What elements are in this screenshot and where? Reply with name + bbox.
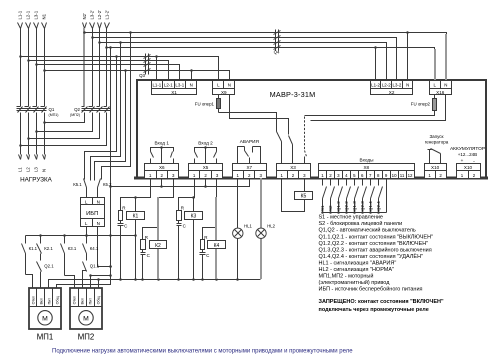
svg-text:Вход 1: Вход 1 <box>154 141 169 146</box>
connector X7 АВАРИЯ <box>233 164 267 171</box>
svg-text:N2': N2' <box>82 13 87 19</box>
svg-text:генератора: генератора <box>425 140 449 145</box>
node input L1-2 arrow <box>105 23 107 29</box>
svg-text:Откл: Откл <box>31 296 35 304</box>
svg-text:X1: X1 <box>171 90 177 95</box>
wire X8 pin9 common <box>386 179 388 213</box>
wire FU2 output to X3 pin3 dashed branch <box>307 112 435 116</box>
svg-text:12: 12 <box>408 173 413 178</box>
UPS box ИБП <box>81 198 105 205</box>
svg-text:L3-2': L3-2' <box>90 10 95 20</box>
svg-text:L: L <box>85 199 88 204</box>
svg-text:МП2: МП2 <box>78 333 94 342</box>
resistor R / capacitor C snubber of K4 <box>203 228 217 240</box>
lamp HL2 with wire from X7 pin3 <box>260 178 262 228</box>
svg-text:L1-1: L1-1 <box>18 10 23 19</box>
svg-text:L3-1: L3-1 <box>175 82 184 87</box>
svg-text:X16: X16 <box>436 90 445 95</box>
wire bus A drop to МП feeders <box>57 187 111 289</box>
node input N2 arrow <box>83 23 85 29</box>
svg-text:Q4: Q4 <box>274 50 280 55</box>
wire L2-2 feeder to X2 <box>100 43 387 81</box>
wire L3-2 vertical drop <box>92 29 94 107</box>
wire load column L1-1 <box>20 113 22 155</box>
terminal strip X1 <box>152 81 197 89</box>
svg-text:N: N <box>444 82 447 87</box>
svg-text:L1-1: L1-1 <box>152 82 161 87</box>
svg-text:S2 - блокировка лицевой панели: S2 - блокировка лицевой панели <box>319 220 403 227</box>
wire L3-2 feeder to X2 <box>93 38 397 81</box>
svg-text:X7: X7 <box>246 165 252 170</box>
svg-text:X3: X3 <box>290 165 296 170</box>
relay coil K2 <box>157 197 159 241</box>
svg-text:К1.1: К1.1 <box>29 246 38 251</box>
svg-text:К3: К3 <box>191 214 197 220</box>
breaker Q4 <box>274 31 281 35</box>
svg-text:(МП1): (МП1) <box>49 113 59 117</box>
svg-text:L1-2': L1-2' <box>105 10 110 20</box>
svg-text:АВАРИЯ: АВАРИЯ <box>240 139 259 144</box>
svg-text:Q1.2,Q2.2 - контакт состояния: Q1.2,Q2.2 - контакт состояния "ВКЛЮЧЕН" <box>319 241 429 247</box>
svg-text:Q1,Q2 - автоматический выключа: Q1,Q2 - автоматический выключатель <box>319 227 416 234</box>
svg-text:Подключение нагрузки автоматич: Подключение нагрузки автоматическими вык… <box>52 349 353 355</box>
connector X3 <box>277 164 311 171</box>
wire tap L2-2 feeder to УПС stub <box>119 41 122 44</box>
svg-text:Q2: Q2 <box>74 107 80 112</box>
svg-text:Q1.4: Q1.4 <box>368 201 373 211</box>
wire L1-1 feeder to X1 and X9 <box>21 57 219 81</box>
svg-text:N: N <box>42 169 47 172</box>
relay coil K3 <box>193 198 195 212</box>
svg-text:HL2: HL2 <box>267 223 275 228</box>
wire X16 L riser <box>434 49 436 80</box>
wire N2 feeder to X2 and X16 <box>85 33 447 81</box>
svg-text:X5: X5 <box>203 165 209 170</box>
svg-text:N1: N1 <box>42 13 47 19</box>
device box МАВР-3-31М outline <box>137 80 486 179</box>
wire L2-1 feeder to X1 <box>29 61 169 81</box>
wire tap L1-1 feeder to contact K5.1 <box>115 55 118 58</box>
svg-text:FU опер1: FU опер1 <box>195 102 215 107</box>
wire L1-2 vertical drop <box>106 29 108 107</box>
svg-text:К5.1: К5.1 <box>73 182 82 187</box>
svg-text:К1: К1 <box>133 214 139 220</box>
node load output L2 arrow <box>27 155 29 160</box>
connector X6 Вход 1 <box>145 164 179 171</box>
terminal strip X16 <box>430 81 452 89</box>
breaker Q3 <box>144 55 151 59</box>
contact K4.1 and contact Q1.1 to МП2 Вкл <box>86 236 88 243</box>
svg-text:подключать через промежуточные: подключать через промежуточные реле <box>319 307 429 313</box>
wire L1-1 vertical drop <box>20 29 22 107</box>
wire X5 pin2 to bus A <box>205 179 207 187</box>
svg-text:Q1.3,Q2.3 - контакт аварийного: Q1.3,Q2.3 - контакт аварийного выключени… <box>319 246 432 253</box>
switch group S1..Q2.4 below X8 <box>322 179 324 186</box>
wire jumper X6 pin3 to K2 group <box>159 179 174 198</box>
svg-text:Запуск: Запуск <box>429 134 443 139</box>
svg-text:L3-1: L3-1 <box>34 10 39 19</box>
svg-text:Q2.1: Q2.1 <box>44 263 54 268</box>
terminal strip X9 <box>213 81 235 89</box>
wire L2-2 vertical drop <box>99 29 101 107</box>
svg-text:К2: К2 <box>155 243 161 249</box>
svg-text:11: 11 <box>400 173 405 178</box>
svg-text:Общ: Общ <box>55 296 59 304</box>
svg-text:Q1.4,Q2.4 - контакт состояния: Q1.4,Q2.4 - контакт состояния "УДАЛЁН" <box>319 253 424 260</box>
svg-text:L1: L1 <box>18 167 23 172</box>
wire tap N2 feeder to contact K5.2 <box>129 31 132 34</box>
relay coil K5 <box>304 179 306 192</box>
svg-text:L2-2': L2-2' <box>97 10 102 20</box>
svg-text:Q1.3: Q1.3 <box>352 201 357 211</box>
wire switch common bus <box>323 212 387 214</box>
node input L2-2 arrow <box>98 23 100 29</box>
wire X6 pin2 to bus A <box>161 179 163 187</box>
wire МП2 Пит branch <box>91 275 111 277</box>
svg-text:X8: X8 <box>363 165 369 170</box>
motor drive МП1 <box>29 288 61 329</box>
svg-text:X6: X6 <box>159 165 165 170</box>
wire load column L3-1 <box>36 113 38 155</box>
wire ИБП N output <box>98 227 111 267</box>
wire N1 feeder to X1 and X9 <box>45 71 230 81</box>
wire L3-1 feeder to X1 <box>37 65 180 81</box>
svg-text:S1 - местное управление: S1 - местное управление <box>319 215 384 221</box>
breaker Q1 (MP1 drive) <box>17 106 21 108</box>
svg-text:S1: S1 <box>320 205 325 211</box>
svg-text:N: N <box>406 82 409 87</box>
svg-text:Входы: Входы <box>360 157 375 162</box>
svg-text:X2: X2 <box>389 90 395 95</box>
svg-text:К3.1: К3.1 <box>68 246 77 251</box>
relay coil K1 <box>135 198 137 212</box>
svg-text:Общ: Общ <box>96 296 100 304</box>
svg-text:Q1.2: Q1.2 <box>336 201 341 211</box>
connector X8 Входы <box>319 164 415 171</box>
svg-text:Вкл: Вкл <box>80 298 84 304</box>
wire bus A from УПС feed to X7 pin2 <box>111 179 250 187</box>
svg-text:НАГРУЗКА: НАГРУЗКА <box>20 177 53 184</box>
wire jumper X6 pin1 to K1 group <box>121 179 151 211</box>
svg-text:N: N <box>228 82 231 87</box>
lamp HL1 with wire from X7 pin1 <box>237 179 239 229</box>
svg-text:L2-2: L2-2 <box>382 82 391 87</box>
wire X16 N riser <box>445 34 447 80</box>
svg-text:Q1: Q1 <box>49 107 55 112</box>
svg-text:ИБП: ИБП <box>86 211 98 217</box>
svg-text:L3: L3 <box>34 167 39 172</box>
wire ИБП L output to relay bus <box>86 227 88 236</box>
svg-text:HL1: HL1 <box>244 223 252 228</box>
svg-text:Откл: Откл <box>72 296 76 304</box>
wire common return bus <box>49 280 261 289</box>
svg-text:ЗАПРЕЩЕНО: контакт состояния ": ЗАПРЕЩЕНО: контакт состояния "ВКЛЮЧЕН" <box>319 299 444 305</box>
terminal strip X2 <box>371 81 413 89</box>
wire МП2 Общ riser <box>98 280 100 289</box>
svg-text:FU опер2: FU опер2 <box>411 101 431 106</box>
wire FU1 output to X3 pin1 contact <box>219 113 277 132</box>
wire merge Q2 pole L2-2 to L2-1 column <box>29 113 100 139</box>
svg-text:Пит: Пит <box>88 298 92 305</box>
svg-text:М: М <box>83 315 89 322</box>
contact K2.1 and contact Q2.1 to МП1 Вкл <box>40 236 42 243</box>
node load output L3 arrow <box>35 155 37 160</box>
svg-text:К5: К5 <box>301 194 307 200</box>
wire merge Q2 pole L3-2 to L3-1 column <box>37 113 93 132</box>
wire tap L1-2 feeder down to bus A <box>109 46 112 49</box>
node load output N arrow <box>43 155 45 160</box>
svg-text:N: N <box>97 221 100 226</box>
svg-text:+12...24В: +12...24В <box>458 152 477 157</box>
svg-text:X9: X9 <box>221 90 227 95</box>
motor drive МП2 <box>70 288 102 329</box>
svg-text:МАВР-3-31М: МАВР-3-31М <box>270 90 316 99</box>
svg-text:МП1: МП1 <box>37 333 53 342</box>
fuse FU опер2 <box>434 95 436 99</box>
svg-text:10: 10 <box>392 173 397 178</box>
wire merge Q2 pole L1-2 to L1-1 column <box>21 113 107 146</box>
wire L2-1 vertical drop <box>28 29 30 107</box>
resistor R / capacitor C snubber of K2 <box>143 228 159 240</box>
contact K3.1 with wire to МП2 Откл <box>64 236 66 243</box>
svg-text:К4: К4 <box>214 243 220 249</box>
svg-text:(МП2): (МП2) <box>70 113 80 117</box>
node input L3-1 arrow <box>34 23 37 29</box>
svg-text:HL2 - сигнализация "НОРМА": HL2 - сигнализация "НОРМА" <box>319 267 395 273</box>
connector X10 аккумулятор <box>457 164 481 171</box>
wire X16-N stub <box>311 95 446 121</box>
svg-text:L2-1: L2-1 <box>26 10 31 19</box>
svg-text:+: + <box>461 158 464 163</box>
wire merge Q2 pole N2 to N1 column <box>45 113 85 123</box>
wire L3-1 vertical drop <box>36 29 38 107</box>
node input L1-1 arrow <box>18 23 21 29</box>
svg-text:Q1.1,Q2.1 - контакт состояния: Q1.1,Q2.1 - контакт состояния "ВЫКЛЮЧЕН" <box>319 234 434 240</box>
breaker Q2 (MP2 drive) <box>82 106 85 108</box>
wire load column L2-1 <box>28 113 30 155</box>
svg-text:Пит: Пит <box>47 298 51 305</box>
svg-text:Вкл: Вкл <box>39 298 43 304</box>
wire N2 vertical drop <box>83 28 85 106</box>
svg-text:-: - <box>473 158 475 164</box>
svg-text:К4.1: К4.1 <box>90 246 99 251</box>
svg-text:S2: S2 <box>328 205 333 211</box>
svg-text:Q1.1: Q1.1 <box>90 263 100 268</box>
svg-text:N: N <box>190 82 193 87</box>
svg-text:N: N <box>97 199 100 204</box>
svg-text:М: М <box>42 315 48 322</box>
svg-text:L2: L2 <box>26 167 31 172</box>
node load output L1 arrow <box>19 155 21 160</box>
wire jumper X5 pin1 to K3 group <box>179 179 195 211</box>
svg-text:Q2.4: Q2.4 <box>376 201 381 211</box>
wire X5 pin3 to K4 coil <box>216 179 218 198</box>
svg-text:HL1 - сигнализация "АВАРИЯ": HL1 - сигнализация "АВАРИЯ" <box>319 260 397 266</box>
node input L3-2 arrow <box>90 23 93 29</box>
contact K1.1 with wire to МП1 Откл <box>25 236 27 243</box>
connector X5 Вход 2 <box>189 164 223 171</box>
node input N1 arrow <box>42 23 45 29</box>
wire N1 vertical drop <box>44 29 46 107</box>
wire L1-2 feeder to X2 and X16 <box>107 48 435 81</box>
svg-text:X10: X10 <box>431 165 440 170</box>
svg-text:(электромагнитный) привод: (электромагнитный) привод <box>319 279 391 286</box>
svg-text:ИБП - источник бесперебойного: ИБП - источник бесперебойного питания <box>319 286 423 293</box>
node input L2-1 arrow <box>26 23 29 29</box>
svg-text:X10: X10 <box>464 165 473 170</box>
svg-text:L1-2: L1-2 <box>371 82 380 87</box>
connector X10 запуск генератора <box>425 164 447 171</box>
wire bus C (contact supply) <box>26 235 136 237</box>
svg-text:Q3: Q3 <box>139 73 145 78</box>
wire X9-N to X3 pin2 contact <box>230 95 289 135</box>
svg-text:К2.1: К2.1 <box>44 246 53 251</box>
wire tap N1 feeder to УПС stub <box>124 69 127 72</box>
svg-text:L2-1: L2-1 <box>164 82 173 87</box>
svg-text:L3-2: L3-2 <box>393 82 402 87</box>
svg-text:Вход 2: Вход 2 <box>198 141 213 146</box>
svg-text:L: L <box>85 221 88 226</box>
relay coil K4 <box>215 197 217 241</box>
fuse FU опер1 <box>218 95 220 99</box>
svg-text:Q2.3: Q2.3 <box>360 201 365 211</box>
wire load column N1 <box>44 113 46 155</box>
svg-text:Q2.2: Q2.2 <box>344 201 349 211</box>
svg-text:МП1,МП2 - моторный: МП1,МП2 - моторный <box>319 273 374 280</box>
